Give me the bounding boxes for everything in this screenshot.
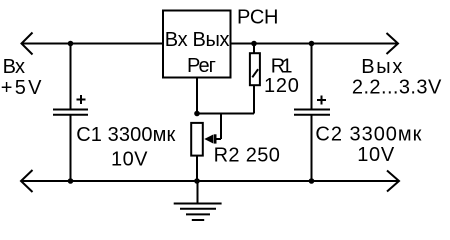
svg-text:10V: 10V <box>357 144 395 166</box>
regulator U1 box <box>163 11 231 78</box>
wire C2 bottom lead <box>311 116 313 182</box>
capacitor C1 <box>53 95 88 115</box>
svg-text:10V: 10V <box>111 148 148 170</box>
label C1 value 3300mk <box>76 124 175 146</box>
label C2 voltage 10V <box>357 144 395 166</box>
svg-text:C1 3300мк: C1 3300мк <box>76 124 175 146</box>
svg-text:РСН: РСН <box>237 7 279 29</box>
svg-text:Рег: Рег <box>187 55 216 77</box>
arrow input left <box>22 33 33 55</box>
svg-text:R1: R1 <box>271 56 293 78</box>
svg-text:120: 120 <box>264 75 299 97</box>
svg-text:2.2...3.3V: 2.2...3.3V <box>352 77 442 99</box>
wire R1 bottom lead <box>253 85 255 113</box>
svg-text:Вх Вых: Вх Вых <box>165 29 230 51</box>
node input junction dot <box>68 41 74 47</box>
node R1 top junction dot <box>251 41 257 47</box>
wire regulator adjust pin <box>196 78 198 114</box>
label +5V input voltage <box>1 77 42 99</box>
svg-text:R2 250: R2 250 <box>214 144 280 166</box>
svg-text:Вых: Вых <box>361 56 402 78</box>
capacitor C2 <box>294 96 330 115</box>
wire C1 bottom lead <box>70 116 72 182</box>
label RSN regulator name <box>237 7 279 29</box>
resistor R2 <box>191 123 203 156</box>
label C2 value 3300mk <box>315 123 421 145</box>
label C1 voltage 10V <box>111 148 148 170</box>
ground <box>174 181 222 220</box>
wire R2 bottom lead <box>196 156 198 181</box>
svg-text:C2 3300мк: C2 3300мк <box>315 123 421 145</box>
resistor R2 wiper arrow <box>204 134 216 143</box>
svg-text:+5V: +5V <box>1 77 42 99</box>
node C2 top junction dot <box>309 41 315 47</box>
node ground junction dot <box>194 178 200 184</box>
label pin Reg inside regulator <box>187 55 216 77</box>
arrow bottom left <box>21 170 33 192</box>
label net Vx input <box>3 56 25 78</box>
wire R1 top lead <box>253 44 255 54</box>
arrow output right <box>387 33 399 54</box>
node adjust junction dot <box>194 111 200 117</box>
label net Vyx output <box>361 56 402 78</box>
label R1 value 120 <box>264 75 299 97</box>
wire adjust to R1 bottom <box>197 113 254 115</box>
node C1 bottom junction dot <box>68 178 74 184</box>
wire top bus left segment <box>22 43 164 45</box>
label R2 designator and value <box>214 144 280 166</box>
svg-text:Вх: Вх <box>3 56 25 78</box>
wire C1 top lead <box>70 44 72 109</box>
wire R2 wiper tap <box>214 114 221 140</box>
resistor R1 <box>250 53 260 85</box>
wire C2 top lead <box>311 44 313 109</box>
label R1 designator <box>271 56 293 78</box>
node C2 bottom junction dot <box>309 178 315 184</box>
label output voltage range <box>352 77 442 99</box>
label pin Vx Vyx inside regulator <box>165 29 230 51</box>
arrow bottom right <box>387 171 399 192</box>
wire top bus right segment <box>231 43 399 45</box>
wire bottom bus <box>21 180 399 182</box>
